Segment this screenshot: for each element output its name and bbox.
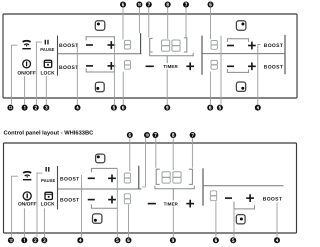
svg-text:BOOST: BOOST xyxy=(59,43,79,49)
svg-text:BOOST: BOOST xyxy=(264,65,284,71)
svg-text:BOOST: BOOST xyxy=(264,43,284,49)
svg-text:PAUSE: PAUSE xyxy=(40,47,54,52)
svg-text:BOOST: BOOST xyxy=(263,197,283,203)
svg-text:Control panel layout - WHI633B: Control panel layout - WHI633BC xyxy=(4,129,94,136)
svg-text:ON/OFF: ON/OFF xyxy=(17,71,35,77)
svg-text:TIMER: TIMER xyxy=(163,64,178,69)
svg-text:LOCK: LOCK xyxy=(41,202,56,208)
svg-text:PAUSE: PAUSE xyxy=(41,178,55,183)
svg-text:BOOST: BOOST xyxy=(59,65,79,71)
svg-text:LOCK: LOCK xyxy=(40,71,55,77)
svg-text:BOOST: BOOST xyxy=(60,198,80,204)
svg-text:BOOST: BOOST xyxy=(60,176,80,182)
svg-text:TIMER: TIMER xyxy=(164,201,179,206)
svg-text:ON/OFF: ON/OFF xyxy=(18,202,36,208)
